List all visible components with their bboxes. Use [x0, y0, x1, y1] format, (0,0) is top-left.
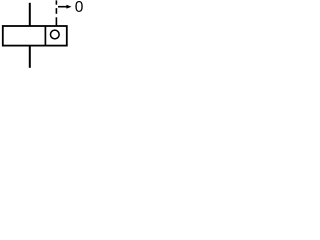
- terminal pin top: [29, 3, 31, 26]
- terminal pin bottom: [29, 46, 31, 68]
- actuation dashed line: [55, 0, 57, 26]
- internal divider: [44, 26, 46, 46]
- arrow head: [66, 5, 71, 9]
- indicator circle: [50, 30, 59, 39]
- arrow shaft: [58, 6, 69, 8]
- component body: [3, 26, 67, 46]
- svg-text:0: 0: [75, 0, 84, 16]
